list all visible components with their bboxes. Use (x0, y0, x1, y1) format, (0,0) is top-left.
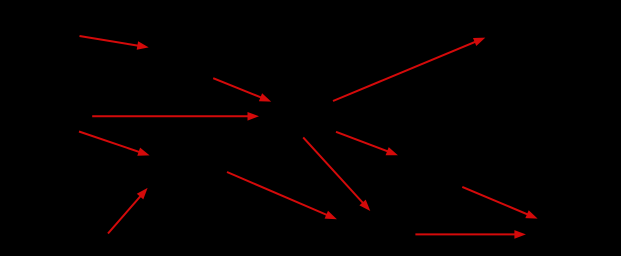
edge 9: central node C -> node F (red arrow) (336, 132, 398, 155)
edge 1: top-left node -> node B (red arrow) (80, 36, 149, 50)
edge 8: central node C -> bottom-middle node G (red arrow) (303, 137, 370, 211)
edge 2: node B -> central node C (red arrow) (213, 78, 271, 101)
edge 4: left node A -> central node C (red arrow) (92, 112, 259, 121)
edge 11: bottom-middle node G -> bottom-right node (red arrow) (415, 230, 526, 239)
edge 10: node F -> bottom-right node (red arrow) (462, 187, 537, 219)
edge 3: central node C -> top-right node (red arrow) (333, 38, 485, 101)
edge 5: left node A -> node E (red arrow) (79, 132, 150, 156)
edge 6: bottom-left node -> node E (red arrow) (108, 188, 148, 234)
edge 7: node E -> bottom-middle node G (red arrow) (227, 172, 337, 219)
